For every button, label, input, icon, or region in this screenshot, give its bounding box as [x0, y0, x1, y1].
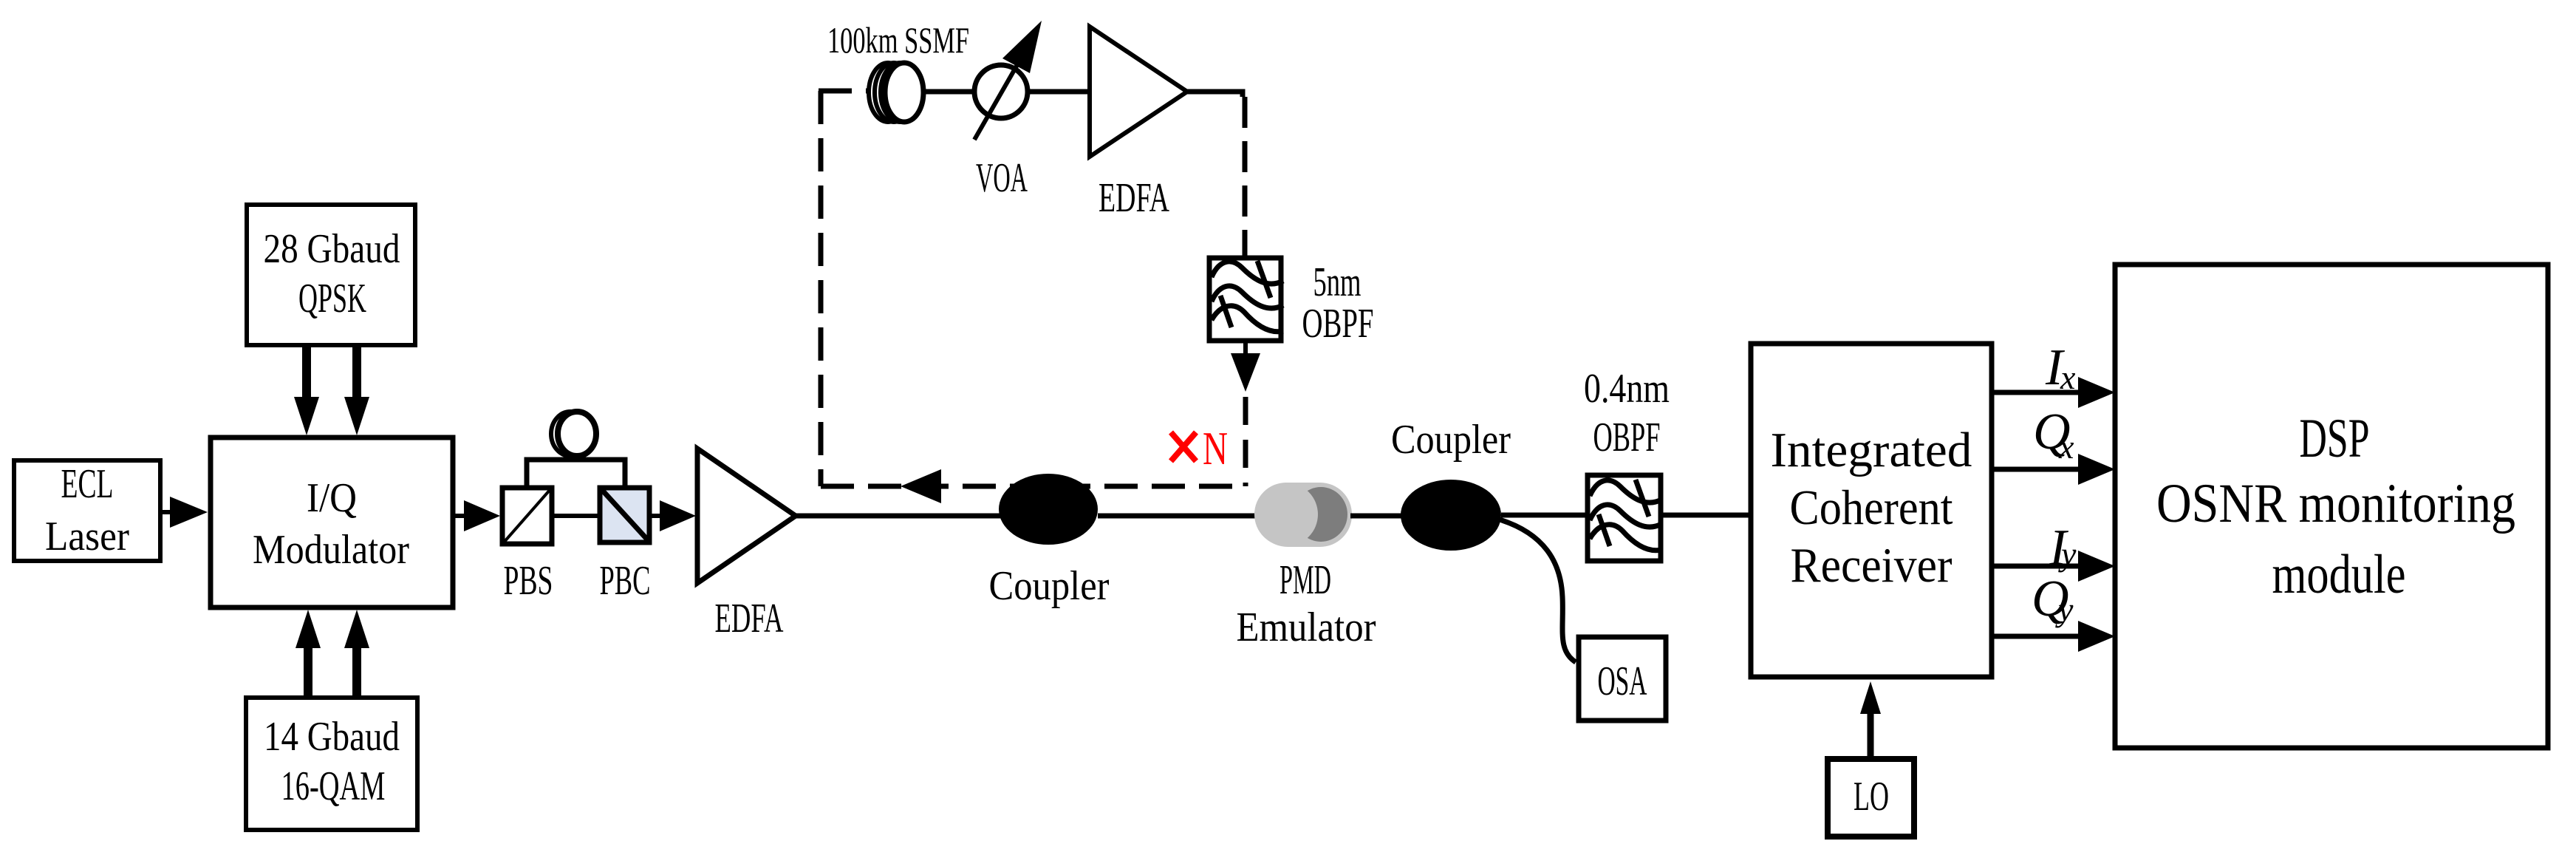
svg-text:OBPF: OBPF: [1593, 415, 1661, 460]
wire 0.4nm OBPF to receiver: [1661, 513, 1749, 518]
svg-text:Modulator: Modulator: [253, 527, 409, 573]
coupler 2 (black ellipse): [1391, 417, 1511, 551]
fiber curve coupler 2 to OSA: [1500, 520, 1576, 662]
wire coupler 1 to PMD emulator: [1098, 514, 1257, 519]
svg-text:OSA: OSA: [1598, 658, 1647, 704]
dashed loop right vertical to OBPF: [1243, 97, 1248, 256]
arrow down from 5nm OBPF: [1231, 341, 1260, 486]
attenuator VOA: [974, 21, 1042, 201]
svg-text:Integrated: Integrated: [1771, 423, 1972, 477]
svg-text:ECL: ECL: [61, 461, 114, 507]
svg-text:Coherent: Coherent: [1790, 480, 1953, 535]
svg-text:PMD: PMD: [1280, 557, 1331, 603]
svg-text:5nm: 5nm: [1313, 259, 1362, 305]
dashed loop top-left segment: [819, 89, 869, 94]
svg-text:x: x: [2060, 358, 2076, 396]
filter 5nm OBPF: [1209, 258, 1374, 347]
fiber coil 100km SSMF: [827, 19, 969, 122]
wire modulator to PBS with arrowhead: [455, 500, 500, 531]
double arrows QPSK to modulator: [294, 347, 369, 435]
output wire Qx with arrowhead: [1994, 454, 2115, 485]
svg-text:Coupler: Coupler: [989, 563, 1110, 609]
box LO: [1828, 759, 1914, 837]
wire VOA to loop EDFA: [1028, 89, 1090, 95]
svg-text:28 Gbaud: 28 Gbaud: [264, 226, 400, 272]
svg-text:Coupler: Coupler: [1391, 417, 1511, 463]
wire EDFA to coupler 1: [796, 514, 1005, 519]
box Integrated Coherent Receiver: [1751, 344, 1992, 677]
wire coupler 2 to 0.4nm OBPF: [1501, 513, 1588, 518]
box ECL Laser: [14, 460, 160, 561]
svg-text:LO: LO: [1854, 774, 1889, 820]
svg-text:I/Q: I/Q: [307, 475, 357, 521]
svg-text:OBPF: OBPF: [1302, 301, 1374, 347]
amplifier EDFA (main): [697, 449, 796, 641]
dashed recirculating loop left vertical: [819, 91, 824, 486]
PBS polarization beam splitter: [502, 488, 553, 604]
box OSA: [1579, 637, 1666, 721]
box I/Q Modulator: [211, 437, 453, 607]
PBC polarization beam combiner: [600, 488, 651, 604]
svg-text:PBC: PBC: [600, 558, 651, 604]
box 28 Gbaud QPSK: [247, 205, 415, 345]
red xN loop count label: [1171, 422, 1228, 474]
svg-text:PBS: PBS: [504, 558, 553, 604]
wire ECL Laser to I/Q Modulator with arrowhead: [160, 497, 208, 528]
output wire Qy with arrowhead: [1994, 621, 2115, 652]
wire loop EDFA out: [1187, 89, 1214, 95]
output wire Iy with arrowhead: [1994, 551, 2115, 582]
svg-text:N: N: [1203, 422, 1228, 474]
output wire Ix with arrowhead: [1994, 377, 2115, 408]
coupler 1 (black ellipse): [989, 474, 1110, 609]
wire coil to VOA: [926, 89, 975, 95]
PMD Emulator (cylinder): [1237, 483, 1376, 650]
svg-text:y: y: [2058, 535, 2077, 573]
svg-text:DSP: DSP: [2300, 408, 2370, 469]
svg-text:0.4nm: 0.4nm: [1584, 366, 1670, 412]
dashed loop bottom return wire with left arrowhead: [821, 469, 1246, 503]
svg-text:Laser: Laser: [45, 514, 129, 559]
svg-text:y: y: [2055, 590, 2074, 628]
svg-text:x: x: [2058, 428, 2074, 466]
amplifier EDFA (loop): [1090, 27, 1187, 221]
svg-text:EDFA: EDFA: [715, 596, 784, 641]
wire PMD emulator to coupler 2: [1350, 514, 1404, 519]
svg-text:14 Gbaud: 14 Gbaud: [264, 714, 400, 760]
svg-text:100km SSMF: 100km SSMF: [827, 19, 969, 61]
svg-text:VOA: VOA: [976, 155, 1028, 201]
dashed loop top-right corner: [1214, 92, 1243, 97]
polarization controller loop between PBS and PBC: [527, 412, 625, 486]
svg-text:module: module: [2272, 544, 2406, 605]
svg-text:Emulator: Emulator: [1237, 605, 1376, 650]
box 14 Gbaud 16-QAM: [246, 698, 417, 830]
wire PBS to PBC: [552, 514, 600, 518]
box DSP OSNR monitoring module: [2115, 265, 2548, 748]
svg-text:EDFA: EDFA: [1099, 175, 1169, 221]
svg-text:16-QAM: 16-QAM: [281, 763, 386, 809]
svg-text:Receiver: Receiver: [1791, 538, 1953, 593]
svg-text:QPSK: QPSK: [298, 276, 366, 321]
arrow LO to receiver: [1860, 681, 1881, 756]
double arrows 16-QAM to modulator: [295, 610, 369, 698]
svg-text:OSNR monitoring: OSNR monitoring: [2156, 473, 2515, 534]
wire PBC to EDFA with arrowhead: [652, 500, 696, 531]
filter 0.4nm OBPF: [1584, 366, 1670, 561]
